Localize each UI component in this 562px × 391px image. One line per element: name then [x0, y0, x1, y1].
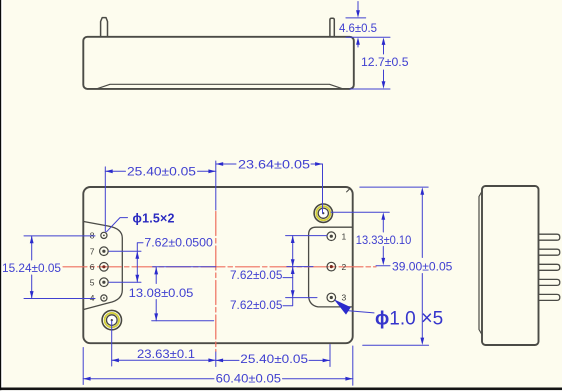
15.24 bottom arrow [30, 291, 34, 298]
svg-text:25.40±0.05: 25.40±0.05 [240, 352, 308, 366]
39.00 ext line bottom [363, 344, 429, 346]
front body corner tick [347, 188, 351, 192]
7.62 right elbow 1 [283, 277, 293, 279]
60.40 left arrow [83, 377, 90, 381]
svg-text:5: 5 [90, 277, 95, 287]
side view left flange [479, 191, 482, 335]
phi1.0 big arrow [334, 299, 351, 314]
39.00 ext line top [360, 186, 428, 188]
4.6 arrow up [356, 37, 360, 44]
ext line pin5 [109, 281, 141, 283]
23.64 dim line left seg [216, 163, 236, 165]
pin 3 [327, 293, 336, 302]
13.08 ext line top (blue over centerline) [153, 266, 216, 268]
side view pins [539, 234, 560, 300]
23.63 left arrow [112, 358, 119, 362]
right D-sub outline [309, 227, 353, 307]
svg-text:1: 1 [342, 231, 347, 241]
left white strip [1, 0, 3, 388]
bottom white row [0, 389, 562, 391]
mounting hole bottom-left [102, 310, 121, 329]
mounting hole top-right [314, 204, 332, 222]
25.40 bottom dim right seg [309, 359, 330, 361]
23.64 right arrow [315, 162, 322, 166]
15.24 dim line upper seg [31, 236, 33, 260]
red vertical centerline [215, 212, 217, 352]
svg-text:13.33±0.10: 13.33±0.10 [356, 233, 412, 247]
13.33 dim line lower seg [382, 247, 384, 260]
13.08 bottom arrow [154, 313, 158, 320]
ext line hole top-right vertical [322, 164, 324, 213]
ext line bottom hole vertical [111, 321, 113, 366]
left black edge strip [0, 0, 1, 390]
15.24 top arrow [30, 236, 34, 243]
39.00 top arrow [420, 187, 424, 194]
25.40 top left arrow [105, 169, 112, 173]
bottom border line [0, 388, 562, 391]
7.62 left elbow [137, 243, 143, 252]
pin 8 [101, 232, 107, 238]
13.08 dim line upper seg [155, 267, 157, 284]
12.7 dim line lower [383, 70, 385, 83]
15.24 ext line top [24, 235, 95, 237]
25.40 top dim line left seg [105, 170, 125, 172]
7.62 left dim line [136, 251, 138, 282]
right 7.62 arrows [291, 236, 295, 243]
top view bottom shelf line [98, 84, 343, 88]
23.63 dim line [112, 359, 216, 361]
svg-text:15.24±0.05: 15.24±0.05 [2, 261, 61, 275]
red horizontal centerline [63, 266, 376, 268]
ext line right pin column bottom [329, 345, 331, 367]
center vertical blue upper [215, 161, 217, 210]
top view right pin [330, 18, 334, 36]
60.40 ext line right [352, 346, 354, 385]
left D-sub outline [84, 222, 123, 310]
4.6 arrow down [356, 10, 360, 17]
pin 2 [327, 262, 336, 271]
side view body [482, 186, 539, 345]
ext line body bottom (12.7 dim) [350, 88, 390, 90]
ext line pin7 [109, 250, 141, 252]
ext line pin2 level [287, 266, 313, 268]
svg-text:6: 6 [90, 262, 95, 272]
svg-text:7.62±0.05: 7.62±0.05 [230, 268, 283, 282]
right pin numbers [342, 231, 347, 302]
phi1.0 leader line [349, 311, 375, 313]
23.63 right arrow [208, 358, 215, 362]
25.40 top right arrow [208, 169, 215, 173]
60.40 dim line right seg [283, 378, 353, 380]
svg-text:25.40±0.05: 25.40±0.05 [127, 165, 196, 179]
pin 5 [100, 278, 109, 287]
svg-text:23.64±0.05: 23.64±0.05 [238, 158, 310, 172]
13.33 top arrow [381, 212, 385, 219]
39.00 dim line upper seg [421, 193, 423, 258]
13.08 ext line bottom [152, 320, 214, 322]
13.33 ext tick bottom [376, 265, 390, 267]
svg-text:7.62±0.0500: 7.62±0.0500 [144, 235, 213, 249]
svg-text:2: 2 [342, 262, 347, 272]
12.7 arrow down [382, 81, 386, 88]
60.40 dim line left seg [83, 378, 214, 380]
23.64 dim line right seg [311, 163, 323, 165]
pin 7 [100, 247, 109, 256]
pin 6 [100, 263, 109, 272]
svg-text:60.40±0.05: 60.40±0.05 [216, 371, 282, 385]
4.6 dim line lower tail [357, 42, 359, 47]
svg-text:7: 7 [90, 246, 95, 256]
pin 4 [101, 295, 107, 301]
13.08 top arrow [154, 267, 158, 274]
7.62 left bottom arrow [135, 275, 139, 282]
dimension labels front view [2, 158, 453, 386]
7.62 right elbow 2 [283, 298, 293, 306]
svg-text:4.6±0.5: 4.6±0.5 [339, 21, 377, 35]
39.00 dim line lower seg [421, 274, 423, 340]
front view body [83, 187, 352, 343]
4.6 dim line upper [357, 2, 359, 13]
ext line pin top (4.6 dim) [346, 17, 366, 19]
ext line pin1 [286, 235, 327, 237]
12.7 arrow up [382, 38, 386, 45]
13.33 bottom arrow [381, 258, 385, 265]
25.40 top dim line right seg [198, 170, 216, 172]
top view left pin [101, 18, 108, 37]
svg-text:39.00±0.05: 39.00±0.05 [392, 260, 453, 274]
dimension arrows front view [30, 162, 424, 381]
phi1.5 leader [107, 218, 128, 232]
23.64 left arrow [216, 162, 223, 166]
right 7.62 dim line [292, 236, 294, 298]
svg-text:23.63±0.1: 23.63±0.1 [137, 347, 195, 361]
ext line body top (4.6/12.7 dim) [346, 36, 390, 38]
center vertical blue bottom [215, 352, 217, 367]
top view body [83, 37, 354, 89]
60.40 right arrow [345, 377, 352, 381]
svg-text:ϕ1.5×2: ϕ1.5×2 [133, 211, 175, 225]
pin 1 [327, 232, 336, 241]
60.40 ext line left [82, 348, 84, 385]
ext line pin3 [286, 297, 317, 299]
7.62 left top arrow [135, 251, 139, 258]
ext line left pin column (25.40 top) [104, 167, 106, 232]
left pin numbers [90, 231, 95, 304]
25.40 bottom left arrow [216, 359, 223, 363]
13.08 dim line lower seg [155, 300, 157, 321]
svg-text:13.08±0.05: 13.08±0.05 [129, 286, 194, 300]
svg-text:7.62±0.05: 7.62±0.05 [230, 298, 283, 312]
svg-text:ϕ1.0 ×5: ϕ1.0 ×5 [375, 308, 443, 330]
svg-text:12.7±0.5: 12.7±0.5 [361, 55, 409, 69]
12.7 dim line upper [383, 43, 385, 54]
25.40 bottom dim left seg [216, 359, 239, 361]
25.40 bottom right arrow [323, 359, 330, 363]
39.00 bottom arrow [420, 338, 424, 345]
15.24 dim line lower seg [31, 275, 33, 299]
13.33 ext line top [331, 211, 389, 213]
svg-text:3: 3 [342, 293, 347, 303]
13.33 dim line upper seg [382, 218, 384, 232]
15.24 ext line bottom [24, 298, 95, 300]
